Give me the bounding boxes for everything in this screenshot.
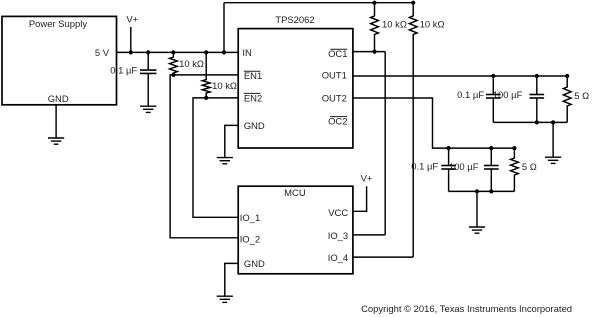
svg-text:GND: GND: [244, 259, 265, 270]
svg-text:GND: GND: [244, 121, 265, 132]
svg-text:5 Ω: 5 Ω: [574, 91, 589, 102]
svg-text:10 kΩ: 10 kΩ: [382, 20, 407, 31]
svg-text:Power Supply: Power Supply: [29, 19, 88, 30]
svg-text:MCU: MCU: [284, 188, 306, 199]
svg-text:5 Ω: 5 Ω: [522, 162, 537, 173]
svg-text:10 kΩ: 10 kΩ: [420, 20, 445, 31]
svg-text:OC1: OC1: [328, 49, 347, 60]
svg-text:GND: GND: [48, 94, 69, 105]
svg-text:V+: V+: [361, 174, 373, 185]
svg-text:IO_4: IO_4: [328, 253, 348, 264]
svg-text:100 µF: 100 µF: [449, 162, 479, 173]
svg-text:IO_1: IO_1: [240, 213, 260, 224]
svg-text:100 µF: 100 µF: [493, 90, 523, 101]
svg-text:IO_2: IO_2: [240, 235, 260, 246]
svg-text:EN2: EN2: [244, 94, 262, 105]
svg-text:10 kΩ: 10 kΩ: [179, 59, 204, 70]
svg-text:V+: V+: [126, 15, 138, 26]
svg-text:OUT2: OUT2: [322, 94, 347, 105]
svg-text:OC2: OC2: [328, 116, 347, 127]
svg-text:TPS2062: TPS2062: [275, 15, 314, 26]
svg-text:IO_3: IO_3: [328, 231, 348, 242]
svg-text:OUT1: OUT1: [322, 71, 347, 82]
svg-text:5 V: 5 V: [95, 48, 110, 59]
svg-text:0.1 µF: 0.1 µF: [110, 65, 137, 76]
svg-text:0.1 µF: 0.1 µF: [457, 90, 484, 101]
svg-text:Copyright © 2016, Texas Instru: Copyright © 2016, Texas Instruments Inco…: [361, 304, 572, 315]
svg-text:IN: IN: [242, 48, 252, 59]
svg-text:10 kΩ: 10 kΩ: [212, 81, 237, 92]
svg-text:VCC: VCC: [328, 208, 348, 219]
svg-text:0.1 µF: 0.1 µF: [411, 162, 438, 173]
svg-text:EN1: EN1: [244, 71, 262, 82]
